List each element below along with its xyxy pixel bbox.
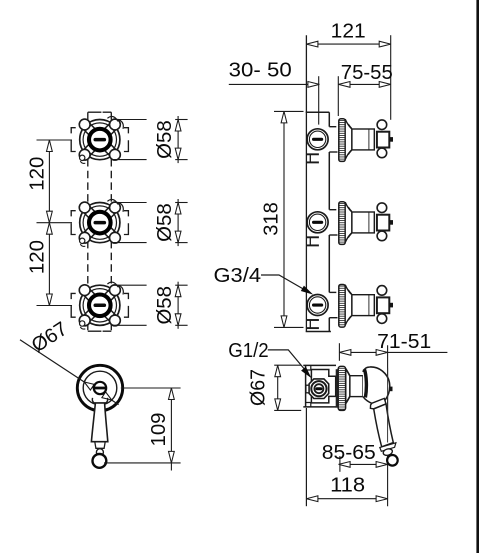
dimension Ø58 valve 2	[112, 199, 188, 246]
mixer inner frame	[311, 370, 335, 403]
concealed body dashed channel	[88, 112, 112, 331]
svg-text:G3/4: G3/4	[214, 265, 262, 287]
valve V1 side view	[307, 119, 393, 163]
dimension 75-55	[338, 76, 390, 116]
extension line left 71-51	[338, 343, 340, 361]
cartridge center	[94, 382, 106, 394]
valve V1 front view	[71, 116, 128, 163]
sleeve (bottom view)	[350, 376, 363, 397]
dimension 118	[305, 408, 307, 506]
svg-text:G1/2: G1/2	[228, 340, 269, 362]
svg-text:85-65: 85-65	[322, 442, 376, 464]
svg-text:Ø67: Ø67	[247, 369, 269, 406]
dimension 121	[306, 35, 390, 120]
svg-text:109: 109	[148, 413, 170, 447]
extension line right (71-51 / 85-65 / 118)	[387, 345, 389, 506]
svg-text:Ø58: Ø58	[154, 286, 176, 325]
svg-text:318: 318	[260, 202, 282, 236]
svg-text:71-51: 71-51	[377, 331, 431, 353]
rail top edge	[306, 111, 330, 113]
supply tab	[306, 385, 310, 393]
dimension Ø67 side	[274, 365, 301, 410]
escutcheon flange (bottom view)	[338, 366, 345, 410]
svg-text:Ø58: Ø58	[154, 203, 176, 242]
lever neck front	[95, 442, 105, 449]
dimension 30-50	[229, 76, 320, 124]
lever ball side	[387, 455, 398, 466]
dome left thick band	[364, 369, 366, 397]
lever shaft front	[91, 403, 107, 442]
extension line visible across dome	[387, 368, 389, 443]
svg-text:120: 120	[27, 240, 49, 274]
lever collar	[370, 398, 386, 409]
Ø67 leader line	[20, 340, 119, 405]
dimension 318	[274, 111, 304, 327]
dimension 109	[104, 388, 181, 471]
rail bottom edge	[306, 331, 331, 333]
handle circle	[77, 365, 122, 410]
cartridge nut octagon	[309, 379, 329, 399]
dimension 71-51	[339, 351, 447, 353]
dimension Ø58 valve 3	[112, 282, 188, 329]
svg-text:121: 121	[331, 21, 366, 43]
dimension Ø58 valve 1	[112, 116, 188, 163]
mixer body side view	[305, 365, 307, 407]
valve V3 front view	[71, 282, 128, 329]
lever shaft side	[374, 404, 394, 447]
junction flange	[336, 369, 339, 408]
dimension 120 arrows	[47, 140, 53, 152]
svg-text:118: 118	[330, 474, 365, 496]
svg-text:75-55: 75-55	[341, 62, 393, 84]
wall line	[305, 35, 307, 331]
Ø67 arrows on leader	[82, 379, 94, 390]
valve V2 front view	[71, 199, 128, 246]
body step lines	[329, 127, 337, 318]
dimension 120 (upper) extension lines	[37, 140, 73, 306]
valve V2 side view	[307, 202, 393, 246]
lever ball front	[93, 454, 107, 468]
dimension 85-65	[339, 456, 341, 472]
dome handle body	[363, 367, 390, 404]
rail front edge segments	[328, 112, 330, 331]
indicator nub	[389, 387, 392, 392]
svg-text:Ø58: Ø58	[154, 120, 176, 159]
border frame right edge	[476, 0, 479, 553]
valve V3 side view	[307, 285, 393, 329]
svg-text:30- 50: 30- 50	[229, 60, 292, 82]
cone (bottom view)	[346, 369, 350, 404]
lever neck side	[380, 443, 396, 452]
svg-text:120: 120	[27, 157, 49, 191]
